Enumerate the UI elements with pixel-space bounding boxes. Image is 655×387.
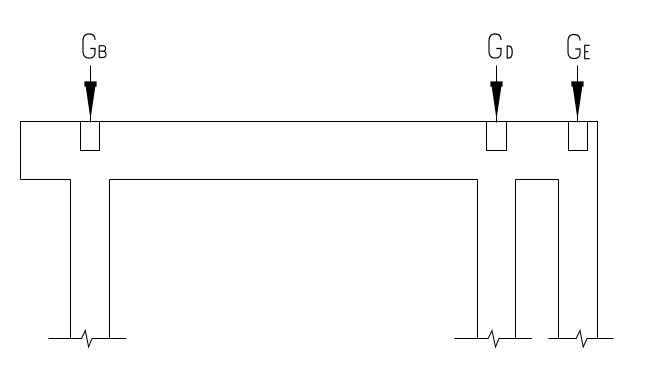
label G_B : letter G [83, 34, 95, 58]
bearing pocket under load G_D [487, 122, 507, 151]
column A right edge [109, 180, 111, 339]
beam left end edge [20, 121, 22, 180]
label G_D : subscript D [507, 46, 512, 58]
load arrow G_B tip line [90, 114, 92, 123]
break line column C [549, 331, 614, 348]
label G_D : letter G [489, 34, 501, 58]
break line column A [49, 331, 127, 348]
load arrow G_B shaft [90, 66, 92, 83]
label G_E : letter G [568, 35, 580, 59]
load arrow G_B head [84, 81, 96, 119]
left ledge (beam soffit left of column A) [21, 179, 71, 181]
column C left edge [558, 180, 560, 339]
beam soffit between column A and column B [110, 179, 478, 181]
bearing pocket under load G_E [569, 122, 588, 151]
load arrow G_D head [490, 81, 502, 119]
load arrow G_D tip line [496, 114, 498, 123]
beam top chord [21, 121, 598, 123]
beam right end / column C right edge [597, 121, 599, 339]
column A left edge [70, 180, 72, 339]
load arrow G_E tip line [577, 114, 579, 123]
break line column B [455, 331, 533, 348]
bearing pocket under load G_B [81, 122, 100, 151]
load arrow G_D shaft [496, 66, 498, 83]
beam soffit between column B and column C [516, 179, 559, 181]
load arrow G_E head [571, 81, 583, 119]
column B left edge [477, 180, 479, 339]
load arrow G_E shaft [577, 66, 579, 83]
label G_B : subscript B [99, 46, 106, 58]
label G_E : subscript E [585, 45, 590, 58]
column B right edge [515, 180, 517, 339]
